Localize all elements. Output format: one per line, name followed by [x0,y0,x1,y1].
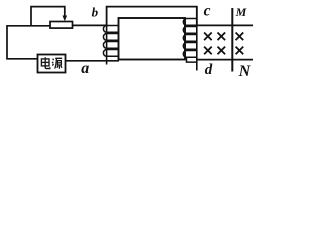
svg-text:a: a [81,60,89,77]
battery box 电源 [38,55,66,73]
wire b (rheostat to primary coil) [73,24,107,26]
transformer core U1 [119,18,186,60]
svg-text:d: d [205,62,213,78]
primary coil winding [106,25,108,64]
svg-text:c: c [204,3,211,20]
svg-text:N: N [238,63,252,80]
wire rheostat slider loop [31,7,65,26]
wire a (battery to primary bottom) [66,60,120,62]
field cross x4 [204,47,212,55]
svg-text:M: M [235,5,247,19]
rheostat R body [50,22,73,29]
wire left loop from battery to rheostat [7,26,50,59]
slider arrow head [63,16,68,22]
secondary coil winding [196,7,198,71]
svg-text:b: b [92,4,99,19]
label 电源 glyph dian [41,57,49,68]
conducting bar MN [231,8,233,72]
bottom rail d-N [197,59,253,61]
field cross x5 [218,47,226,55]
field cross x6 [236,47,244,55]
wire secondary bottom hook [187,57,197,62]
field cross x2 [218,33,226,41]
field cross x1 [204,33,212,41]
wire top link (primary top to secondary top) [107,7,197,26]
field cross x3 [236,33,244,41]
top rail c-M [184,24,253,26]
label 电源 glyph yuan [52,58,62,69]
